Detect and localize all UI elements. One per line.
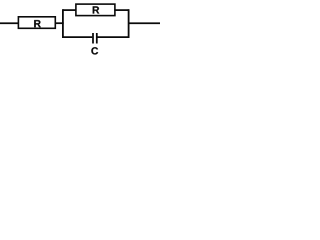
node right junction <box>128 10 130 37</box>
wire <box>98 36 129 38</box>
node left junction <box>62 10 64 37</box>
wire <box>129 22 160 24</box>
capacitor C1 <box>91 33 98 55</box>
wire <box>63 9 77 11</box>
resistor R2 <box>76 4 115 16</box>
wire <box>0 22 19 24</box>
wire <box>114 9 128 11</box>
resistor R1 <box>18 17 55 29</box>
wire <box>63 36 92 38</box>
wire <box>55 22 64 24</box>
